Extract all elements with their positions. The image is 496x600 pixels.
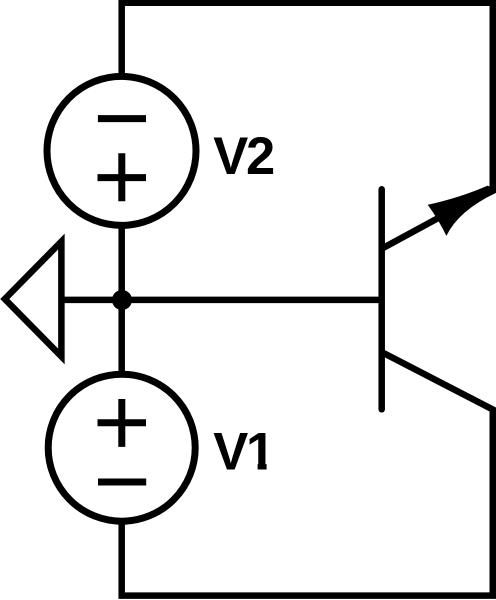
svg-text:V2: V2	[213, 127, 274, 186]
svg-text:V1: V1	[213, 422, 274, 481]
